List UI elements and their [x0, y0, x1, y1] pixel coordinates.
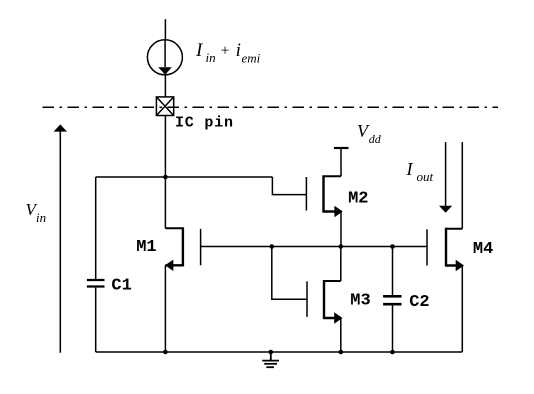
junction dot C2 on rail [390, 244, 395, 249]
svg-text:in: in [206, 50, 216, 65]
IC pin symbol (crossed square) [156, 97, 173, 116]
I_out current arrow [439, 142, 452, 213]
label I_out [406, 159, 434, 184]
wire from current source to IC pin [164, 75, 166, 97]
junction dot M1 source on bottom rail [163, 350, 168, 355]
wire output (M4 drain) from top [461, 142, 463, 229]
transistor M4 [427, 228, 464, 272]
svg-text:C1: C1 [111, 277, 131, 296]
ground symbol [262, 352, 279, 367]
wire M3 source to bottom rail [340, 318, 342, 352]
wire top lead into current source [164, 19, 166, 40]
wire from IC pin down to node A [164, 116, 166, 178]
label I_in + i_emi [195, 40, 261, 66]
transistor M3 [307, 280, 343, 324]
svg-text:M1: M1 [136, 238, 156, 257]
wire M1 source to bottom rail [164, 265, 166, 352]
wire M4 source down to bottom rail [461, 266, 463, 353]
svg-text:M3: M3 [350, 291, 370, 310]
svg-text:dd: dd [369, 132, 382, 146]
gate rail from M1 gate to M4 gate [201, 246, 427, 248]
junction dot M2/M3 on rail [339, 244, 344, 249]
wire node A down to M1 drain [164, 177, 166, 228]
wire M4 gate stub from rail [425, 246, 428, 248]
wire M3 gate branch: down from rail then right to M3 gate [272, 247, 307, 300]
svg-text:in: in [36, 210, 46, 225]
capacitor C2 [383, 296, 401, 304]
wire C1 to bottom rail [95, 288, 97, 352]
wire node A horizontal (left to C1 branch, right to M2 gate branch) [96, 176, 273, 178]
junction dot C2 on bottom rail [390, 350, 395, 355]
wire M2 gate branch: down from node-A wire then right to M2 gate [272, 177, 306, 195]
svg-text:C2: C2 [409, 293, 429, 312]
IC boundary dash-dot line [43, 106, 499, 108]
svg-text:i: i [236, 40, 241, 61]
current source I1 (I_in + i_emi) [147, 40, 182, 75]
wire left branch down to C1 [95, 177, 97, 279]
V_in arrow [54, 124, 67, 352]
svg-text:+: + [220, 43, 231, 60]
transistor M1 (mirrored, gate on right) [165, 227, 201, 271]
svg-text:out: out [417, 169, 434, 184]
junction dot M3 source on bottom rail [339, 350, 344, 355]
node A junction dot [163, 175, 168, 180]
wire rail down to M3 drain [340, 247, 342, 282]
svg-text:M4: M4 [473, 240, 493, 259]
transistor M2 [306, 175, 342, 217]
wire C2 to bottom rail [392, 306, 394, 353]
label V_in [26, 200, 47, 225]
junction dot M3 gate tap on rail [270, 244, 275, 249]
V_dd supply bar [334, 147, 349, 149]
svg-text:IC pin: IC pin [175, 114, 234, 131]
wire M2 source down to gate rail [340, 212, 342, 247]
bottom ground rail wire [96, 351, 463, 353]
junction dot ground on bottom rail [269, 350, 274, 355]
wire rail down to C2 [392, 247, 394, 296]
svg-text:I: I [406, 159, 414, 179]
label V_dd [357, 121, 382, 146]
wire V_dd to M2 drain [340, 148, 342, 176]
capacitor C1 [87, 280, 105, 287]
svg-text:emi: emi [242, 51, 261, 66]
svg-text:M2: M2 [348, 190, 368, 209]
